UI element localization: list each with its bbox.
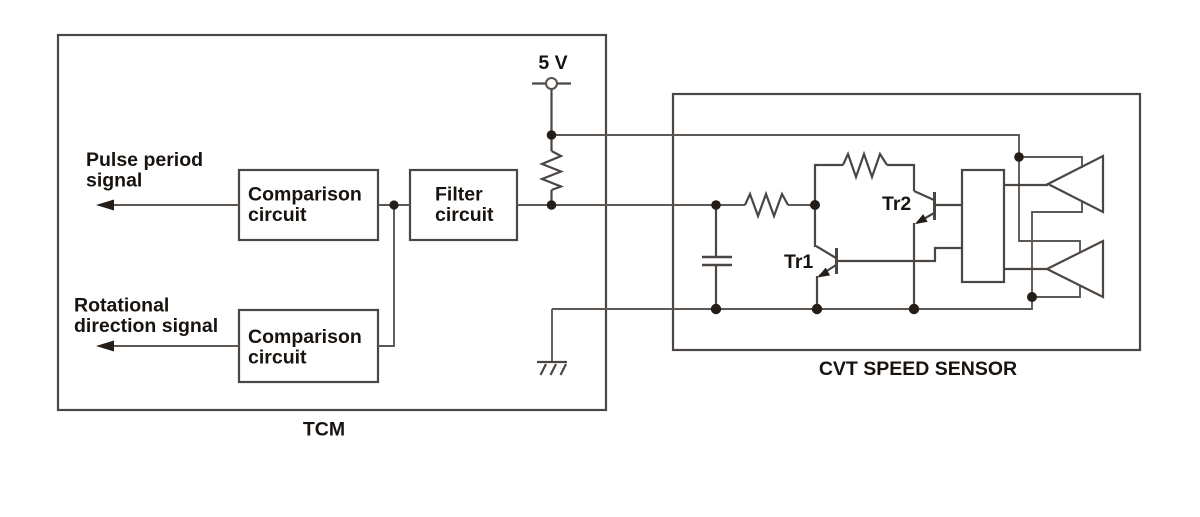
svg-text:Comparison: Comparison: [248, 184, 362, 206]
svg-text:direction signal: direction signal: [74, 315, 218, 337]
svg-text:Tr2: Tr2: [882, 193, 911, 215]
svg-text:CVT SPEED SENSOR: CVT SPEED SENSOR: [819, 358, 1017, 380]
svg-text:Rotational: Rotational: [74, 295, 169, 317]
svg-text:circuit: circuit: [248, 347, 307, 369]
svg-text:Comparison: Comparison: [248, 326, 362, 348]
svg-text:5 V: 5 V: [538, 52, 567, 74]
svg-text:circuit: circuit: [248, 204, 307, 226]
svg-text:Filter: Filter: [435, 184, 483, 206]
svg-text:signal: signal: [86, 170, 142, 192]
svg-text:circuit: circuit: [435, 204, 494, 226]
svg-text:Pulse period: Pulse period: [86, 149, 203, 171]
svg-text:Tr1: Tr1: [784, 251, 813, 273]
svg-text:TCM: TCM: [303, 419, 345, 441]
